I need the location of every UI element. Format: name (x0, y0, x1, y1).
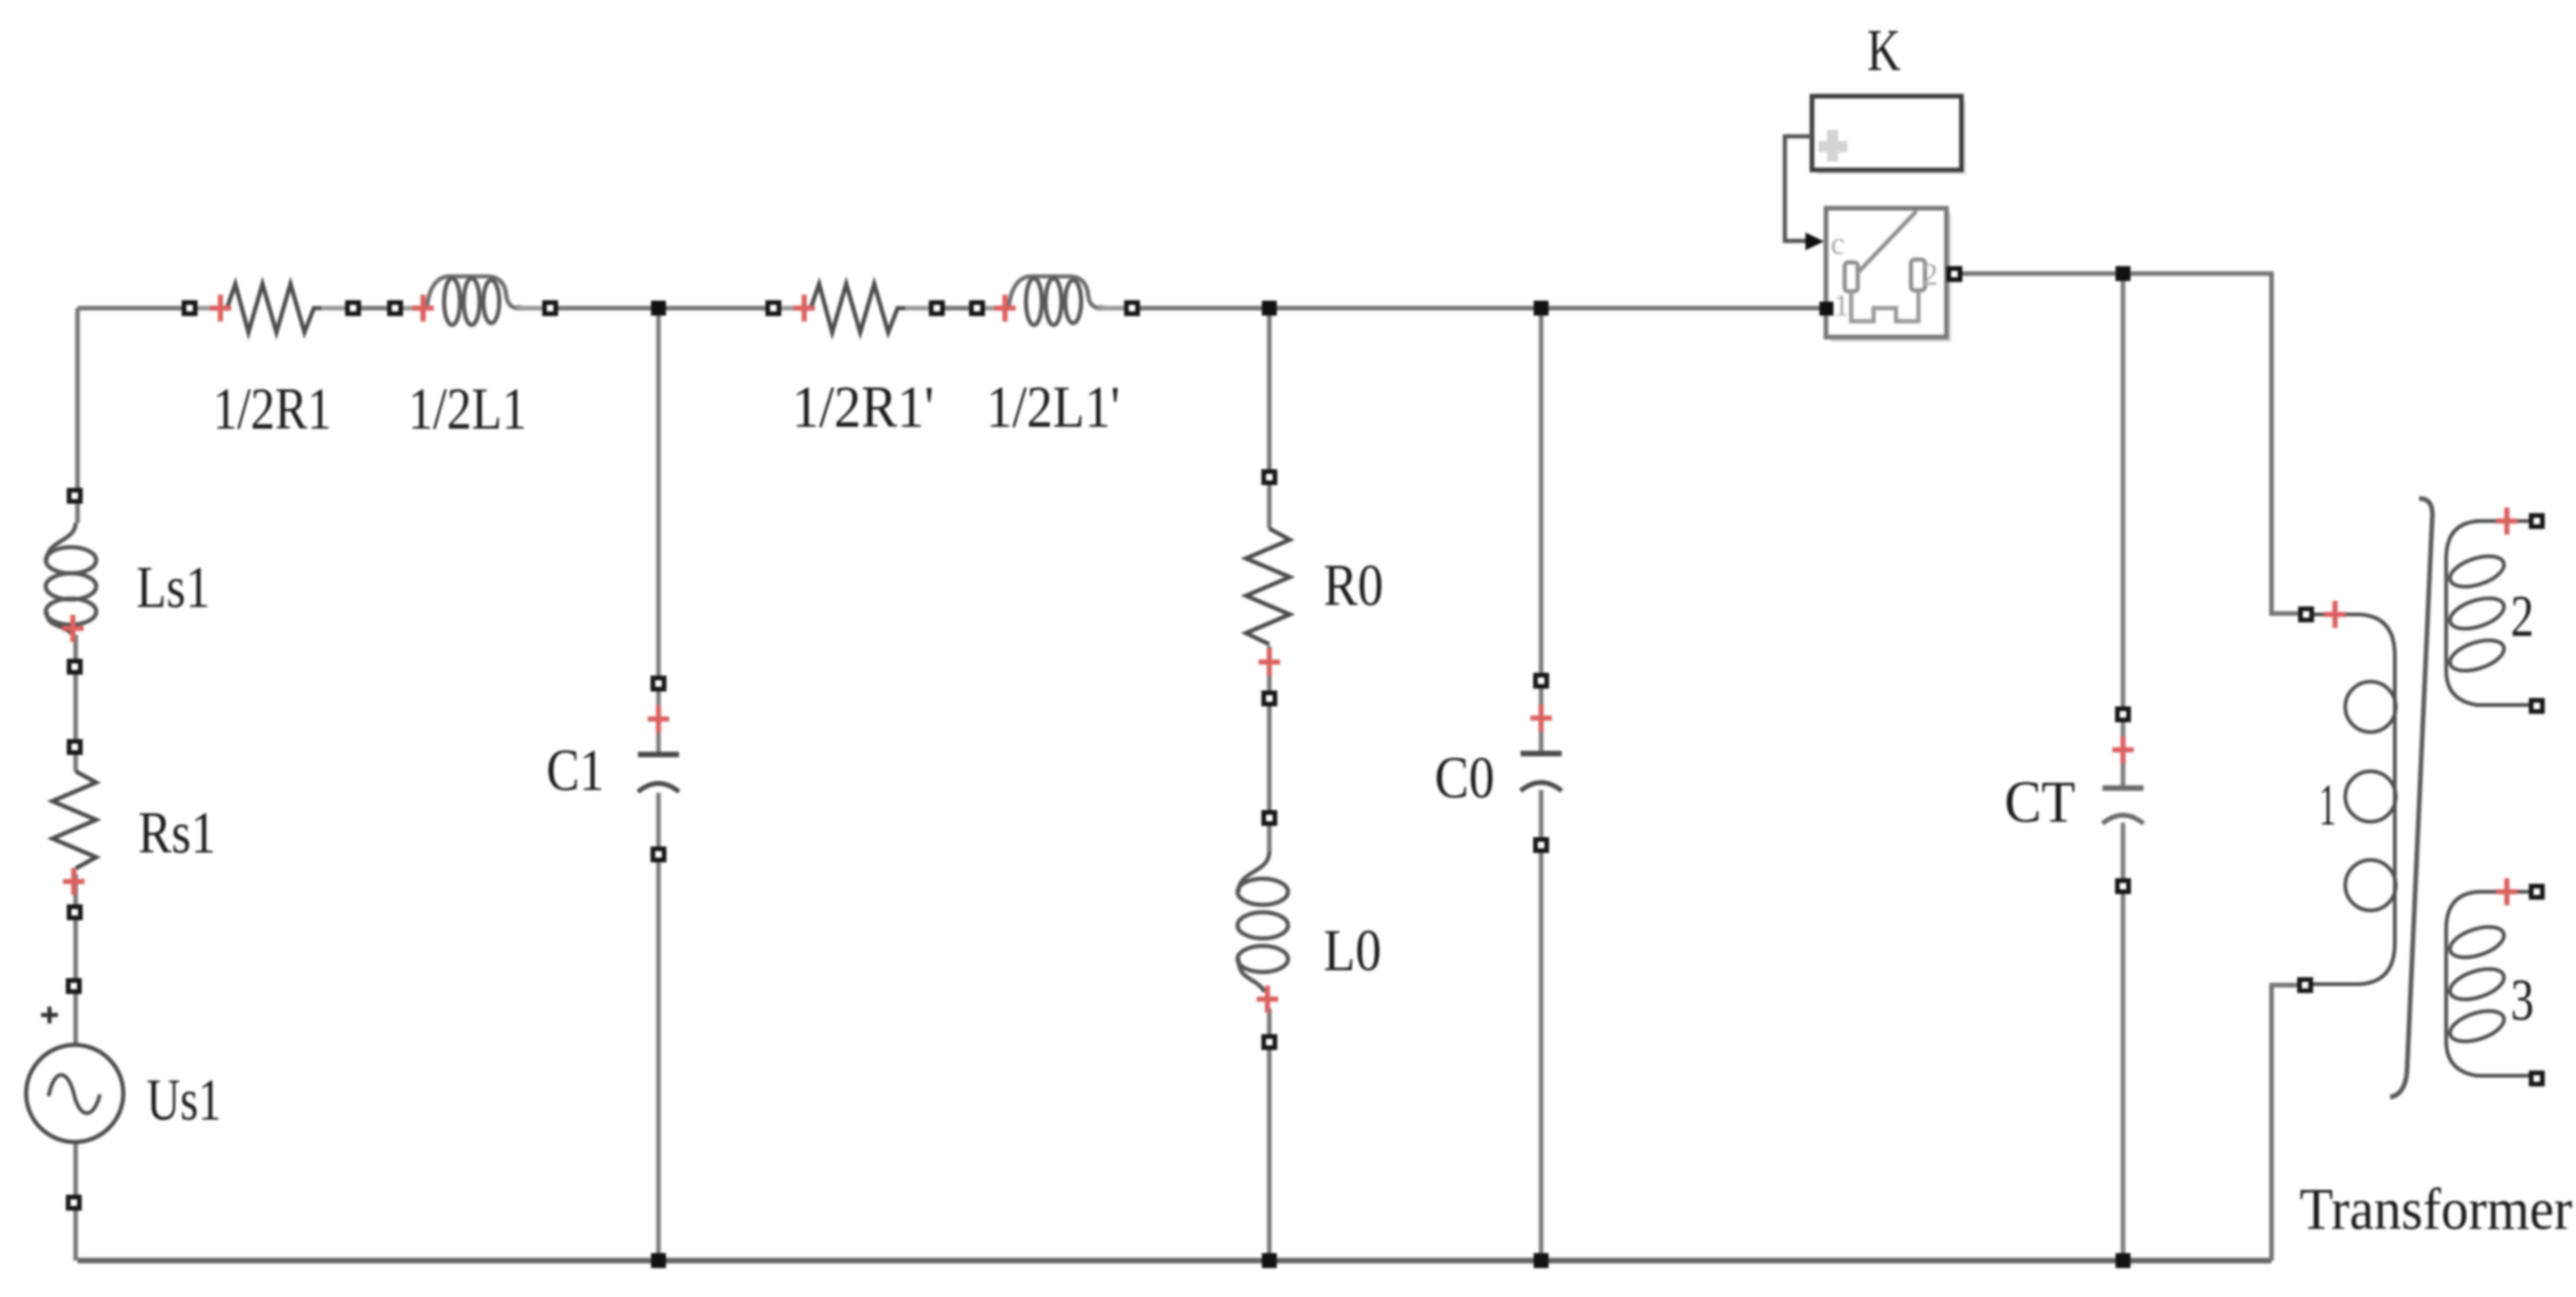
transformer core (2390, 499, 2432, 1097)
wire C1 branch lower (657, 793, 661, 1261)
svg-text:3: 3 (2511, 967, 2534, 1033)
node C1 top junction (651, 301, 666, 316)
svg-text:C1: C1 (546, 738, 604, 803)
svg-text:1/2R1': 1/2R1' (792, 374, 934, 440)
svg-text:Rs1: Rs1 (138, 800, 216, 866)
svg-text:R0: R0 (1323, 553, 1383, 618)
svg-text:K: K (1867, 18, 1901, 83)
svg-text:CT: CT (2004, 769, 2075, 835)
svg-text:1/2L1: 1/2L1 (408, 376, 527, 442)
node C0 top junction (1534, 301, 1549, 316)
wire Ls1 to Rs1 (74, 635, 78, 771)
breaker switch diagonal (1859, 211, 1917, 272)
wire R0 branch top (1267, 308, 1272, 529)
svg-text:Ls1: Ls1 (136, 555, 210, 620)
svg-text:c: c (1831, 227, 1845, 261)
resistor 1/2R1' (766, 284, 945, 332)
left source branch vertical wire (76, 308, 80, 523)
wire C0 branch upper (1539, 308, 1544, 751)
breaker left contact (1845, 262, 1858, 291)
control wire from K to breaker (1785, 136, 1812, 241)
node C1 bottom junction (651, 1253, 666, 1268)
svg-text:C0: C0 (1435, 745, 1494, 811)
wire top rail left part (78, 306, 227, 311)
inductor 1/2L1' (970, 276, 1140, 325)
svg-text:L0: L0 (1323, 918, 1381, 983)
node R0 bottom junction (1262, 1253, 1277, 1268)
wire C0 branch lower (1539, 790, 1544, 1261)
wire between R1 and L1 (321, 306, 427, 311)
wire CT branch upper (2121, 274, 2126, 785)
inductor Ls1 (46, 488, 96, 675)
transformer secondary winding 2 (2446, 508, 2545, 714)
resistor Rs1 (52, 740, 96, 921)
transformer primary winding 1 (2298, 601, 2397, 994)
svg-text:1: 1 (1833, 289, 1849, 323)
transformer secondary winding 3 (2446, 879, 2545, 1087)
wire from L1 to R1' (517, 306, 811, 311)
wire L0 to bottom rail (1267, 1008, 1272, 1261)
resistor 1/2R1 (182, 284, 361, 332)
svg-text:2: 2 (2511, 584, 2534, 649)
wire from L1' to breaker (1098, 306, 1824, 311)
breaker output port (1946, 266, 1962, 282)
breaker block shadow (1831, 213, 1951, 342)
svg-text:Transformer: Transformer (2300, 1177, 2572, 1242)
capacitor C0 (1521, 673, 1562, 853)
svg-text:1/2R1: 1/2R1 (213, 376, 332, 442)
wire C1 branch upper (657, 308, 661, 752)
control wire arrowhead (1805, 233, 1824, 250)
inductor L0 (1238, 811, 1288, 1050)
step block K (1812, 96, 1961, 170)
svg-text:2: 2 (1922, 258, 1938, 292)
resistor R0 (1246, 470, 1290, 707)
wire CT branch lower (2121, 823, 2126, 1261)
wire breaker output to transformer corner (1962, 274, 2299, 613)
AC source Us1 (26, 979, 123, 1211)
wire Us1 to bottom rail (74, 1142, 78, 1261)
wire Rs1 to Us1 (74, 874, 78, 1045)
breaker right contact (1911, 260, 1925, 290)
wire between R1' and L1' (905, 306, 1009, 311)
node CT bottom junction (2116, 1253, 2130, 1268)
wire transformer bottom lead (2272, 985, 2298, 1261)
svg-text:1/2L1': 1/2L1' (986, 374, 1120, 440)
svg-text:1: 1 (2319, 772, 2336, 838)
breaker block K body (1826, 208, 1946, 337)
capacitor C1 (638, 676, 679, 863)
bottom rail (78, 1258, 2272, 1263)
node CT top junction (2116, 266, 2130, 281)
step block K shadow (1817, 101, 1966, 175)
breaker bottom path (1851, 290, 1918, 321)
capacitor CT (2102, 707, 2144, 895)
svg-text:Us1: Us1 (147, 1067, 221, 1133)
node R0 top junction (1262, 301, 1277, 316)
breaker input port main (1819, 302, 1833, 316)
node C0 bottom junction (1534, 1253, 1549, 1268)
step block K gray arrow icon (1819, 130, 1847, 162)
wire R0 to L0 (1267, 646, 1272, 852)
inductor 1/2L1 (388, 276, 559, 325)
